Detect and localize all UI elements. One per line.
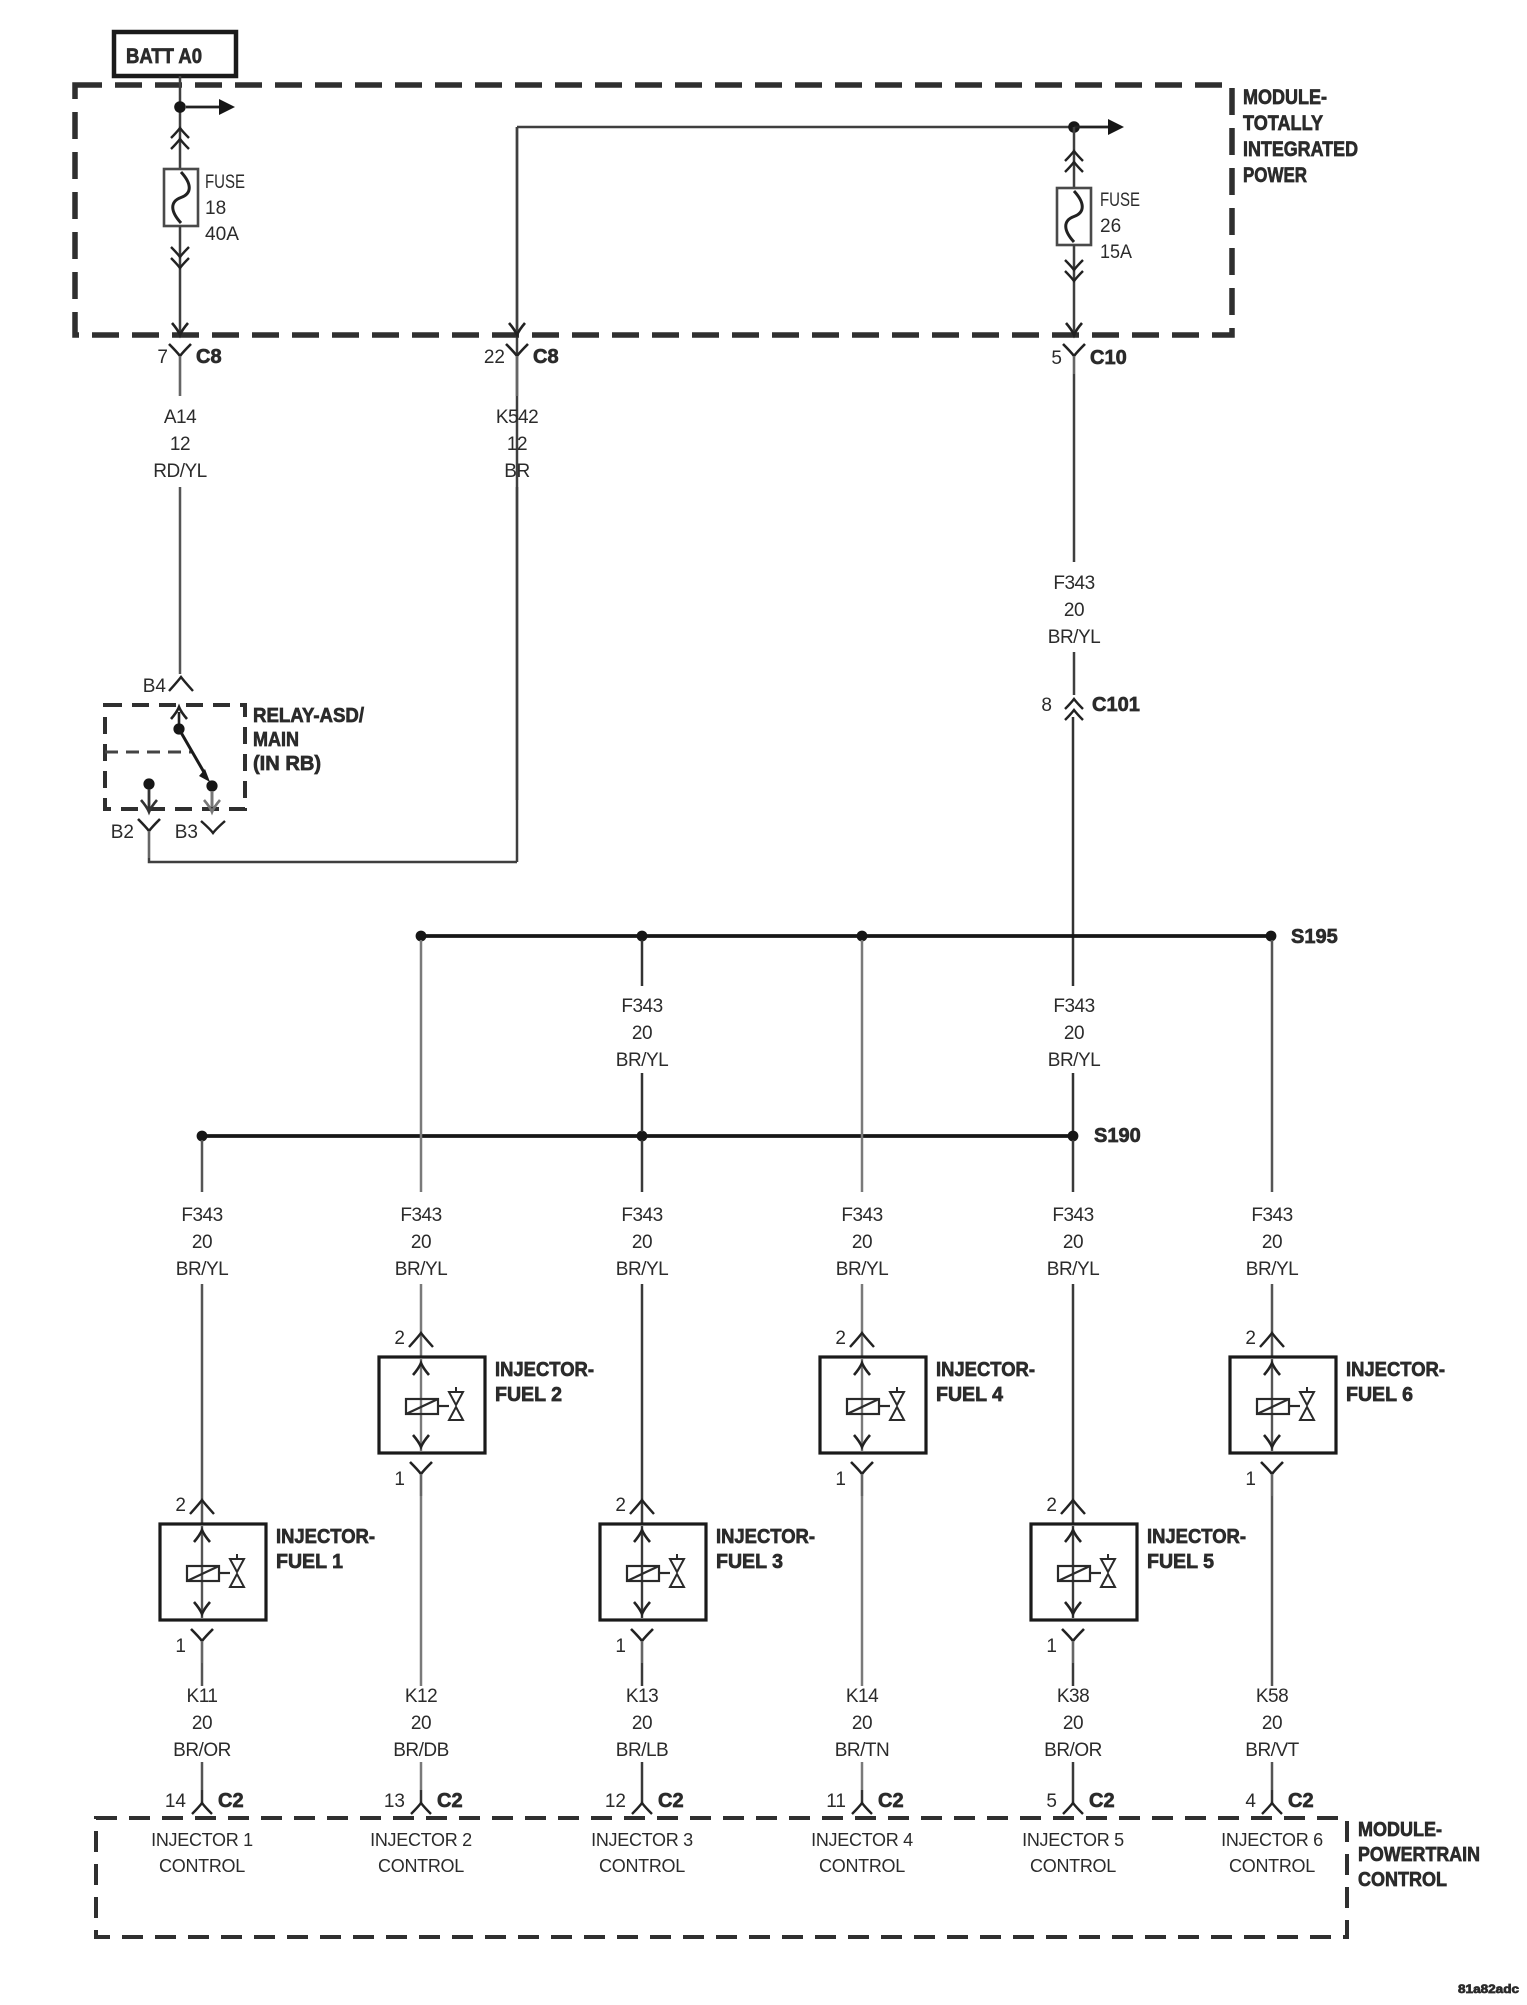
connector chevrons above fuse 18: [171, 128, 189, 149]
connector C8 pin 7: [157, 344, 221, 396]
wire through injector 5: [1072, 1526, 1074, 1618]
svg-text:CONTROL: CONTROL: [378, 1856, 464, 1876]
label INJECTOR 1 CONTROL: [151, 1830, 253, 1876]
injector FUEL 2 pin 2 chevron: [394, 1328, 433, 1349]
svg-text:(IN RB): (IN RB): [253, 753, 321, 775]
injector 5 valve link: [1090, 1572, 1101, 1574]
svg-text:BR/YL: BR/YL: [1048, 1050, 1100, 1071]
wire label F343 20 BR/YL column 6: [1246, 1205, 1298, 1280]
wire label K542 12 BR: [496, 407, 538, 482]
injector 4 valve symbol: [890, 1387, 904, 1420]
svg-text:C2: C2: [878, 1790, 904, 1812]
connector chevrons below fuse 26: [1065, 260, 1083, 281]
svg-text:A14: A14: [164, 407, 197, 428]
wire S190 to label W1: [201, 1140, 204, 1192]
svg-text:FUEL 4: FUEL 4: [936, 1384, 1004, 1406]
svg-text:2: 2: [835, 1328, 846, 1349]
svg-text:40A: 40A: [205, 224, 239, 245]
wire label K14 column 4: [835, 1686, 890, 1761]
svg-text:4: 4: [1245, 1791, 1256, 1812]
svg-text:20: 20: [192, 1713, 212, 1734]
injector 6 valve symbol: [1300, 1387, 1314, 1420]
node S190 tap: [637, 1131, 648, 1142]
node S195 tap 3: [857, 931, 868, 942]
relay pin B2 connector: [111, 819, 160, 858]
svg-text:C101: C101: [1092, 694, 1140, 716]
label MODULE-TOTALLY INTEGRATED POWER: [1243, 86, 1358, 187]
svg-text:1: 1: [615, 1636, 626, 1657]
injector FUEL 3 box: [600, 1524, 706, 1620]
svg-text:26: 26: [1100, 216, 1121, 237]
svg-text:12: 12: [170, 434, 190, 455]
svg-text:7: 7: [157, 347, 168, 368]
injector 6 coil: [1257, 1399, 1289, 1414]
svg-text:BR/DB: BR/DB: [393, 1740, 449, 1761]
svg-text:MODULE-: MODULE-: [1358, 1819, 1442, 1841]
wire injector 5 to label K: [1072, 1663, 1075, 1686]
wire through injector 2: [420, 1359, 422, 1451]
relay internal divider: [105, 751, 192, 754]
wire label to C2 pin 11: [861, 1762, 864, 1790]
svg-text:INJECTOR 2: INJECTOR 2: [370, 1830, 472, 1850]
wire label to C2 pin 12: [641, 1762, 644, 1790]
svg-text:BR/YL: BR/YL: [836, 1259, 888, 1280]
svg-text:BR/YL: BR/YL: [1047, 1259, 1099, 1280]
wire fuse 26 to connector C10: [1073, 245, 1076, 332]
connector C2 pin 14: [165, 1790, 244, 1814]
wire through injector 3: [641, 1526, 643, 1618]
wire label to injector 2: [420, 1284, 423, 1357]
branch arrow to right: [186, 99, 235, 115]
svg-text:2: 2: [175, 1495, 186, 1516]
svg-text:C8: C8: [533, 346, 559, 368]
svg-text:BR/VT: BR/VT: [1245, 1740, 1299, 1761]
connector chevrons below fuse 18: [171, 247, 189, 268]
wire injector 1 to label K: [201, 1663, 204, 1686]
relay label RELAY-ASD/ MAIN (IN RB): [253, 705, 364, 775]
injector 3 coil: [627, 1566, 659, 1581]
svg-text:20: 20: [1262, 1232, 1282, 1253]
wire label K58 column 6: [1245, 1686, 1299, 1761]
wire S190 to label W5 lower: [1072, 1140, 1075, 1192]
svg-text:B2: B2: [111, 822, 134, 843]
wire label K38 column 5: [1044, 1686, 1102, 1761]
svg-text:K38: K38: [1057, 1686, 1089, 1707]
svg-text:20: 20: [1064, 1023, 1084, 1044]
injector FUEL 1 pin 1 connector: [175, 1629, 213, 1663]
svg-text:INJECTOR 5: INJECTOR 5: [1022, 1830, 1124, 1850]
svg-text:20: 20: [852, 1232, 872, 1253]
svg-text:2: 2: [615, 1495, 626, 1516]
wire label to injector 1: [201, 1284, 204, 1524]
injector 4 internal bottom arrow: [854, 1435, 870, 1447]
arrow feed into TIPM: [1074, 119, 1124, 135]
wire A14 to relay pin B4: [179, 487, 182, 674]
injector 5 valve symbol: [1101, 1554, 1115, 1587]
label INJECTOR-FUEL 4: [936, 1359, 1035, 1406]
injector FUEL 1 box: [160, 1524, 266, 1620]
svg-text:F343: F343: [1053, 996, 1094, 1017]
injector FUEL 6 pin 2 chevron: [1245, 1328, 1284, 1349]
svg-text:12: 12: [507, 434, 527, 455]
svg-text:S195: S195: [1291, 926, 1338, 948]
svg-text:BR/YL: BR/YL: [395, 1259, 447, 1280]
svg-text:MODULE-: MODULE-: [1243, 86, 1327, 109]
svg-text:13: 13: [384, 1791, 405, 1812]
svg-text:11: 11: [826, 1791, 846, 1812]
svg-text:FUEL 2: FUEL 2: [495, 1384, 562, 1406]
injector 5 internal bottom arrow: [1065, 1602, 1081, 1614]
svg-text:C2: C2: [218, 1790, 244, 1812]
svg-text:14: 14: [165, 1791, 187, 1812]
svg-text:1: 1: [175, 1636, 186, 1657]
label INJECTOR-FUEL 1: [276, 1526, 375, 1573]
bus S190: [202, 1134, 1073, 1138]
svg-text:K14: K14: [846, 1686, 879, 1707]
node S195 tap 2: [637, 931, 648, 942]
svg-text:20: 20: [632, 1023, 652, 1044]
fuse 26 value label: [1100, 190, 1140, 263]
relay-ASD/MAIN dashed box: [105, 705, 245, 809]
fuse 18 40A: [164, 169, 198, 226]
svg-text:INJECTOR 1: INJECTOR 1: [151, 1830, 253, 1850]
injector FUEL 4 pin 1 connector: [835, 1462, 873, 1496]
svg-text:2: 2: [1245, 1328, 1256, 1349]
label S195: [1291, 926, 1338, 948]
injector FUEL 6 box: [1230, 1357, 1336, 1453]
svg-text:FUSE: FUSE: [1100, 190, 1140, 211]
fuse 18 value label: [205, 172, 245, 245]
wire label to injector 3: [641, 1284, 644, 1524]
svg-text:FUSE: FUSE: [205, 172, 245, 193]
connector C2 pin 5: [1046, 1790, 1114, 1814]
injector 3 internal top arrow: [634, 1530, 650, 1542]
svg-text:K13: K13: [626, 1686, 658, 1707]
injector 2 valve link: [438, 1405, 449, 1407]
svg-text:BR/LB: BR/LB: [616, 1740, 668, 1761]
wire label F343 20 BR/YL column 4: [836, 1205, 888, 1280]
wire K542 lower segment: [516, 487, 519, 800]
wire C10 to label F343: [1073, 374, 1076, 562]
svg-text:20: 20: [1064, 600, 1084, 621]
svg-text:20: 20: [411, 1232, 431, 1253]
svg-text:BATT A0: BATT A0: [126, 45, 202, 68]
injector 6 internal top arrow: [1264, 1363, 1280, 1375]
label INJECTOR 6 CONTROL: [1221, 1830, 1323, 1876]
wire relay B2 to K542 run: [149, 858, 517, 862]
injector FUEL 4 pin 2 chevron: [835, 1328, 874, 1349]
wire label to S190 W3: [641, 1073, 644, 1132]
injector FUEL 5 box: [1031, 1524, 1137, 1620]
svg-text:CONTROL: CONTROL: [159, 1856, 245, 1876]
svg-text:INJECTOR-: INJECTOR-: [276, 1526, 375, 1548]
wire label to C2 pin 4: [1271, 1762, 1274, 1790]
relay contact B3 node: [206, 780, 217, 791]
svg-text:BR/TN: BR/TN: [835, 1740, 890, 1761]
wire label F343 20 BR/YL column 5: [1047, 1205, 1099, 1280]
injector 1 internal bottom arrow: [194, 1602, 210, 1614]
injector 2 valve symbol: [449, 1387, 463, 1420]
wire label F343 20 BR/YL column 3: [616, 1205, 668, 1280]
svg-text:15A: 15A: [1100, 242, 1132, 263]
svg-text:CONTROL: CONTROL: [819, 1856, 905, 1876]
wire top horizontal feed: [517, 126, 1074, 129]
svg-text:20: 20: [192, 1232, 212, 1253]
svg-text:22: 22: [484, 347, 505, 368]
injector 1 valve symbol: [230, 1554, 244, 1587]
svg-text:F343: F343: [621, 1205, 662, 1226]
wire fuse 26 feed: [1073, 127, 1076, 188]
connector C2 pin 12: [605, 1790, 684, 1814]
wire S195 to label W6: [1271, 940, 1274, 1192]
relay pin B4: [143, 676, 193, 697]
wire S195 to S190 W5: [1072, 1073, 1075, 1131]
wire S190 to label W3 lower: [641, 1140, 644, 1192]
injector 3 valve link: [659, 1572, 670, 1574]
junction node on BATT feed: [174, 101, 186, 113]
svg-text:TOTALLY: TOTALLY: [1243, 112, 1323, 135]
svg-text:K542: K542: [496, 407, 538, 428]
node S190 left end: [197, 1131, 208, 1142]
svg-text:INJECTOR 6: INJECTOR 6: [1221, 1830, 1323, 1850]
diagram code: [1458, 1984, 1520, 1996]
svg-text:BR/YL: BR/YL: [176, 1259, 228, 1280]
injector FUEL 4 box: [820, 1357, 926, 1453]
svg-text:20: 20: [632, 1713, 652, 1734]
svg-text:20: 20: [632, 1232, 652, 1253]
svg-text:K11: K11: [187, 1686, 218, 1707]
wire injector 3 to label K: [641, 1663, 644, 1686]
wire injector 2 to label K: [420, 1496, 423, 1686]
svg-text:C2: C2: [1288, 1790, 1314, 1812]
injector FUEL 2 pin 1 connector: [394, 1462, 432, 1496]
svg-text:B4: B4: [143, 676, 167, 697]
svg-text:INJECTOR-: INJECTOR-: [1147, 1526, 1246, 1548]
svg-text:INTEGRATED: INTEGRATED: [1243, 138, 1358, 161]
svg-text:20: 20: [1262, 1713, 1282, 1734]
wire S195 to label W2: [420, 940, 423, 1192]
label INJECTOR 3 CONTROL: [591, 1830, 693, 1876]
wire label to C2 pin 14: [201, 1762, 204, 1790]
relay switch blade: [179, 729, 210, 782]
label INJECTOR 4 CONTROL: [811, 1830, 913, 1876]
svg-text:1: 1: [394, 1469, 405, 1490]
wire label to injector 5: [1072, 1284, 1075, 1524]
wire label F343 20 BR/YL at C101: [1048, 573, 1100, 648]
injector FUEL 3 pin 2 chevron: [615, 1495, 654, 1516]
svg-text:20: 20: [852, 1713, 872, 1734]
svg-text:POWER: POWER: [1243, 164, 1307, 187]
relay common contact arrow: [171, 707, 187, 729]
wire through injector 1: [201, 1526, 203, 1618]
svg-text:C10: C10: [1090, 347, 1127, 369]
svg-text:5: 5: [1051, 348, 1062, 369]
svg-text:2: 2: [394, 1328, 405, 1349]
wire label A14 12 RD/YL: [153, 407, 206, 482]
wire through injector 4: [861, 1359, 863, 1451]
svg-text:CONTROL: CONTROL: [1358, 1869, 1447, 1891]
wire label K13 column 3: [616, 1686, 668, 1761]
svg-text:RELAY-ASD/: RELAY-ASD/: [253, 705, 364, 727]
label INJECTOR-FUEL 5: [1147, 1526, 1246, 1573]
wire to connector C8 pin 22: [516, 127, 519, 332]
label INJECTOR-FUEL 2: [495, 1359, 594, 1406]
wire injector 6 to label K: [1271, 1496, 1274, 1686]
svg-text:81a82adc: 81a82adc: [1458, 1984, 1520, 1996]
svg-text:BR/OR: BR/OR: [1044, 1740, 1102, 1761]
svg-text:F343: F343: [621, 996, 662, 1017]
svg-text:F343: F343: [181, 1205, 222, 1226]
svg-text:20: 20: [1063, 1713, 1083, 1734]
svg-text:INJECTOR 3: INJECTOR 3: [591, 1830, 693, 1850]
injector 2 internal bottom arrow: [413, 1435, 429, 1447]
BATT A0 label box: [114, 32, 236, 76]
connector C101 pin 8: [1041, 694, 1139, 720]
relay contact B2 node: [143, 778, 154, 789]
connector chevrons above fuse 26: [1065, 151, 1083, 172]
arrow into C10 pin 5: [1066, 323, 1082, 335]
injector 4 valve link: [879, 1405, 890, 1407]
module powertrain-control dashed box: [96, 1818, 1347, 1937]
svg-text:12: 12: [605, 1791, 626, 1812]
injector FUEL 5 pin 1 connector: [1046, 1629, 1084, 1663]
wire C101 to S195: [1072, 717, 1075, 986]
svg-text:FUEL 1: FUEL 1: [276, 1551, 343, 1573]
svg-text:POWERTRAIN: POWERTRAIN: [1358, 1844, 1480, 1866]
svg-text:5: 5: [1046, 1791, 1057, 1812]
injector FUEL 2 box: [379, 1357, 485, 1453]
svg-text:BR/OR: BR/OR: [173, 1740, 231, 1761]
svg-text:INJECTOR-: INJECTOR-: [1346, 1359, 1445, 1381]
injector 1 valve link: [219, 1572, 230, 1574]
svg-text:FUEL 5: FUEL 5: [1147, 1551, 1214, 1573]
injector FUEL 3 pin 1 connector: [615, 1629, 653, 1663]
label INJECTOR 5 CONTROL: [1022, 1830, 1124, 1876]
connector C10 pin 5: [1051, 344, 1126, 374]
svg-text:C2: C2: [658, 1790, 684, 1812]
wire label to C2 pin 13: [420, 1762, 423, 1790]
injector 4 internal top arrow: [854, 1363, 870, 1375]
injector 3 valve symbol: [670, 1554, 684, 1587]
svg-text:8: 8: [1041, 695, 1052, 716]
injector 1 internal top arrow: [194, 1530, 210, 1542]
wire label K12 column 2: [393, 1686, 449, 1761]
svg-text:BR/YL: BR/YL: [1246, 1259, 1298, 1280]
svg-text:BR/YL: BR/YL: [1048, 627, 1100, 648]
svg-text:1: 1: [835, 1469, 846, 1490]
connector C8 pin 22: [484, 344, 559, 396]
svg-text:BR: BR: [504, 461, 529, 482]
connector C2 pin 13: [384, 1790, 463, 1814]
wire injector 4 to label K: [861, 1496, 864, 1686]
svg-text:C8: C8: [196, 346, 222, 368]
wire S195 to label W3: [641, 940, 644, 986]
label INJECTOR-FUEL 3: [716, 1526, 815, 1573]
relay common contact node: [173, 723, 184, 734]
svg-text:C2: C2: [1089, 1790, 1115, 1812]
injector FUEL 1 pin 2 chevron: [175, 1495, 214, 1516]
wire label to injector 6: [1271, 1284, 1274, 1357]
svg-text:F343: F343: [1053, 573, 1094, 594]
label MODULE-POWERTRAIN CONTROL: [1358, 1819, 1480, 1891]
wire K542 riser: [516, 127, 519, 862]
injector 6 internal bottom arrow: [1264, 1435, 1280, 1447]
wire label F343 20 BR/YL column 2: [395, 1205, 447, 1280]
wire fuse 18 to connector C8 pin 7: [179, 226, 182, 332]
svg-text:INJECTOR-: INJECTOR-: [936, 1359, 1035, 1381]
svg-text:B3: B3: [175, 822, 198, 843]
wire label K11 column 1: [173, 1686, 231, 1761]
injector 2 coil: [406, 1399, 438, 1414]
svg-text:20: 20: [1063, 1232, 1083, 1253]
node S195 tap 1: [416, 931, 427, 942]
svg-text:CONTROL: CONTROL: [1030, 1856, 1116, 1876]
svg-text:FUEL 6: FUEL 6: [1346, 1384, 1413, 1406]
svg-text:K12: K12: [405, 1686, 437, 1707]
wire label F343 20 BR/YL W5 mid: [1048, 996, 1100, 1071]
wire label F343 20 BR/YL W3 mid: [616, 996, 668, 1071]
wire BATT to fuse 18: [179, 76, 182, 169]
injector 6 valve link: [1289, 1405, 1300, 1407]
wire label to injector 4: [861, 1284, 864, 1357]
connector C2 pin 11: [826, 1790, 903, 1814]
svg-text:MAIN: MAIN: [253, 729, 299, 751]
connector C2 pin 4: [1245, 1790, 1313, 1814]
svg-text:2: 2: [1046, 1495, 1057, 1516]
svg-text:F343: F343: [1251, 1205, 1292, 1226]
svg-text:BR/YL: BR/YL: [616, 1050, 668, 1071]
label INJECTOR 2 CONTROL: [370, 1830, 472, 1876]
bus S195: [421, 934, 1271, 938]
injector 5 internal top arrow: [1065, 1530, 1081, 1542]
injector FUEL 5 pin 2 chevron: [1046, 1495, 1085, 1516]
svg-text:CONTROL: CONTROL: [599, 1856, 685, 1876]
injector 2 internal top arrow: [413, 1363, 429, 1375]
svg-text:S190: S190: [1094, 1125, 1141, 1147]
injector 1 coil: [187, 1566, 219, 1581]
svg-text:FUEL 3: FUEL 3: [716, 1551, 783, 1573]
svg-text:F343: F343: [400, 1205, 441, 1226]
svg-text:F343: F343: [841, 1205, 882, 1226]
svg-text:INJECTOR-: INJECTOR-: [495, 1359, 594, 1381]
node S195 end: [1266, 931, 1277, 942]
svg-text:1: 1: [1046, 1636, 1057, 1657]
svg-text:K58: K58: [1256, 1686, 1288, 1707]
svg-text:20: 20: [411, 1713, 431, 1734]
node S190 right end: [1068, 1131, 1079, 1142]
arrow into C8 pin 7: [172, 323, 188, 335]
relay pin B3 connector: [175, 821, 225, 843]
label S190: [1094, 1125, 1141, 1147]
junction node at fuse 26 tap: [1068, 121, 1080, 133]
module totally-integrated-power dashed box: [75, 85, 1232, 335]
wire label F343 20 BR/YL column 1: [176, 1205, 228, 1280]
relay pin B2 lead: [141, 789, 157, 812]
injector FUEL 6 pin 1 connector: [1245, 1462, 1283, 1496]
wire S195 to label W4: [861, 940, 864, 1192]
svg-text:INJECTOR 4: INJECTOR 4: [811, 1830, 913, 1850]
fuse 26 15A: [1057, 188, 1091, 245]
svg-text:INJECTOR-: INJECTOR-: [716, 1526, 815, 1548]
injector 3 internal bottom arrow: [634, 1602, 650, 1614]
svg-text:BR/YL: BR/YL: [616, 1259, 668, 1280]
svg-text:CONTROL: CONTROL: [1229, 1856, 1315, 1876]
svg-text:18: 18: [205, 198, 226, 219]
wire label to C101: [1073, 652, 1076, 695]
svg-text:F343: F343: [1052, 1205, 1093, 1226]
injector 5 coil: [1058, 1566, 1090, 1581]
svg-text:RD/YL: RD/YL: [153, 461, 206, 482]
